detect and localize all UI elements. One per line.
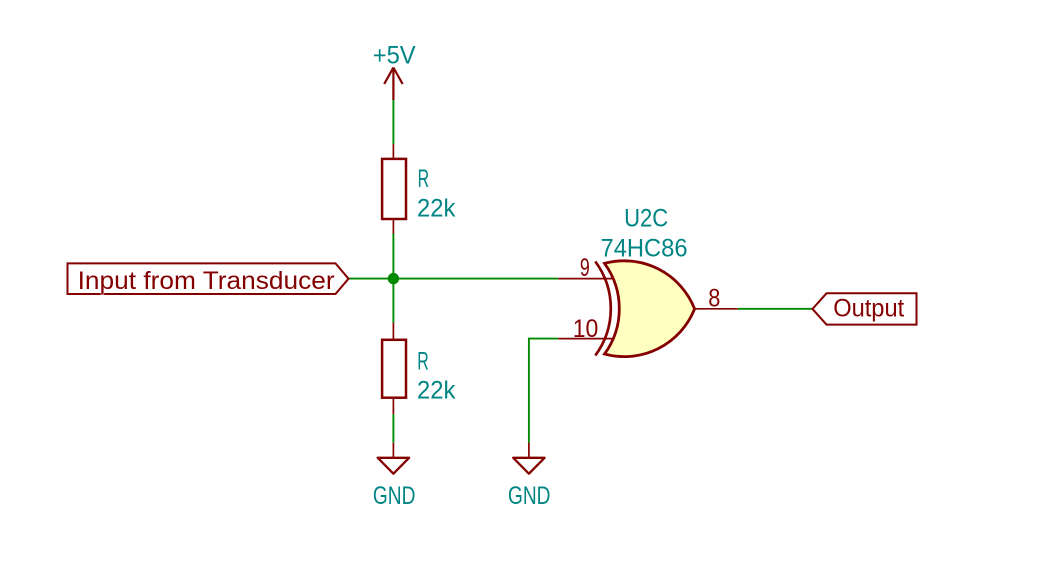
xor gate U2C body <box>605 261 695 357</box>
svg-text:+5V: +5V <box>373 42 416 70</box>
svg-text:9: 9 <box>580 254 590 282</box>
wire U2C pin 10 to GND2 <box>529 339 558 443</box>
svg-text:Output: Output <box>833 294 904 322</box>
ground GND1 <box>373 443 416 510</box>
ground GND2 <box>508 443 551 510</box>
svg-text:R: R <box>417 347 429 375</box>
svg-text:74HC86: 74HC86 <box>601 235 688 263</box>
svg-text:Input from Transducer: Input from Transducer <box>78 267 335 295</box>
power +5V <box>373 42 416 101</box>
wire input label to U2C pin 9 <box>349 278 558 280</box>
svg-text:R: R <box>418 165 430 193</box>
resistor R2 <box>382 323 406 414</box>
svg-text:10: 10 <box>573 315 599 343</box>
U2C pin 9 <box>558 278 614 280</box>
svg-text:U2C: U2C <box>624 205 668 233</box>
global label Output <box>813 293 917 324</box>
svg-text:GND: GND <box>373 482 416 510</box>
wire U2C pin 8 to Output <box>738 308 813 310</box>
wire R2 to GND1 <box>392 414 394 443</box>
svg-text:GND: GND <box>508 482 551 510</box>
U2C pin 8 <box>695 308 738 310</box>
junction at R divider <box>388 273 399 284</box>
resistor R1 <box>382 144 406 234</box>
svg-text:22k: 22k <box>417 195 456 223</box>
global label Input from Transducer <box>68 263 349 295</box>
xor gate U2C input arc <box>595 262 611 356</box>
U2C pin 10 <box>558 338 614 340</box>
svg-text:22k: 22k <box>417 376 456 404</box>
wire +5V to R1 <box>392 100 394 144</box>
wire R1 to R2 through junction <box>392 234 394 323</box>
svg-text:8: 8 <box>708 284 720 312</box>
